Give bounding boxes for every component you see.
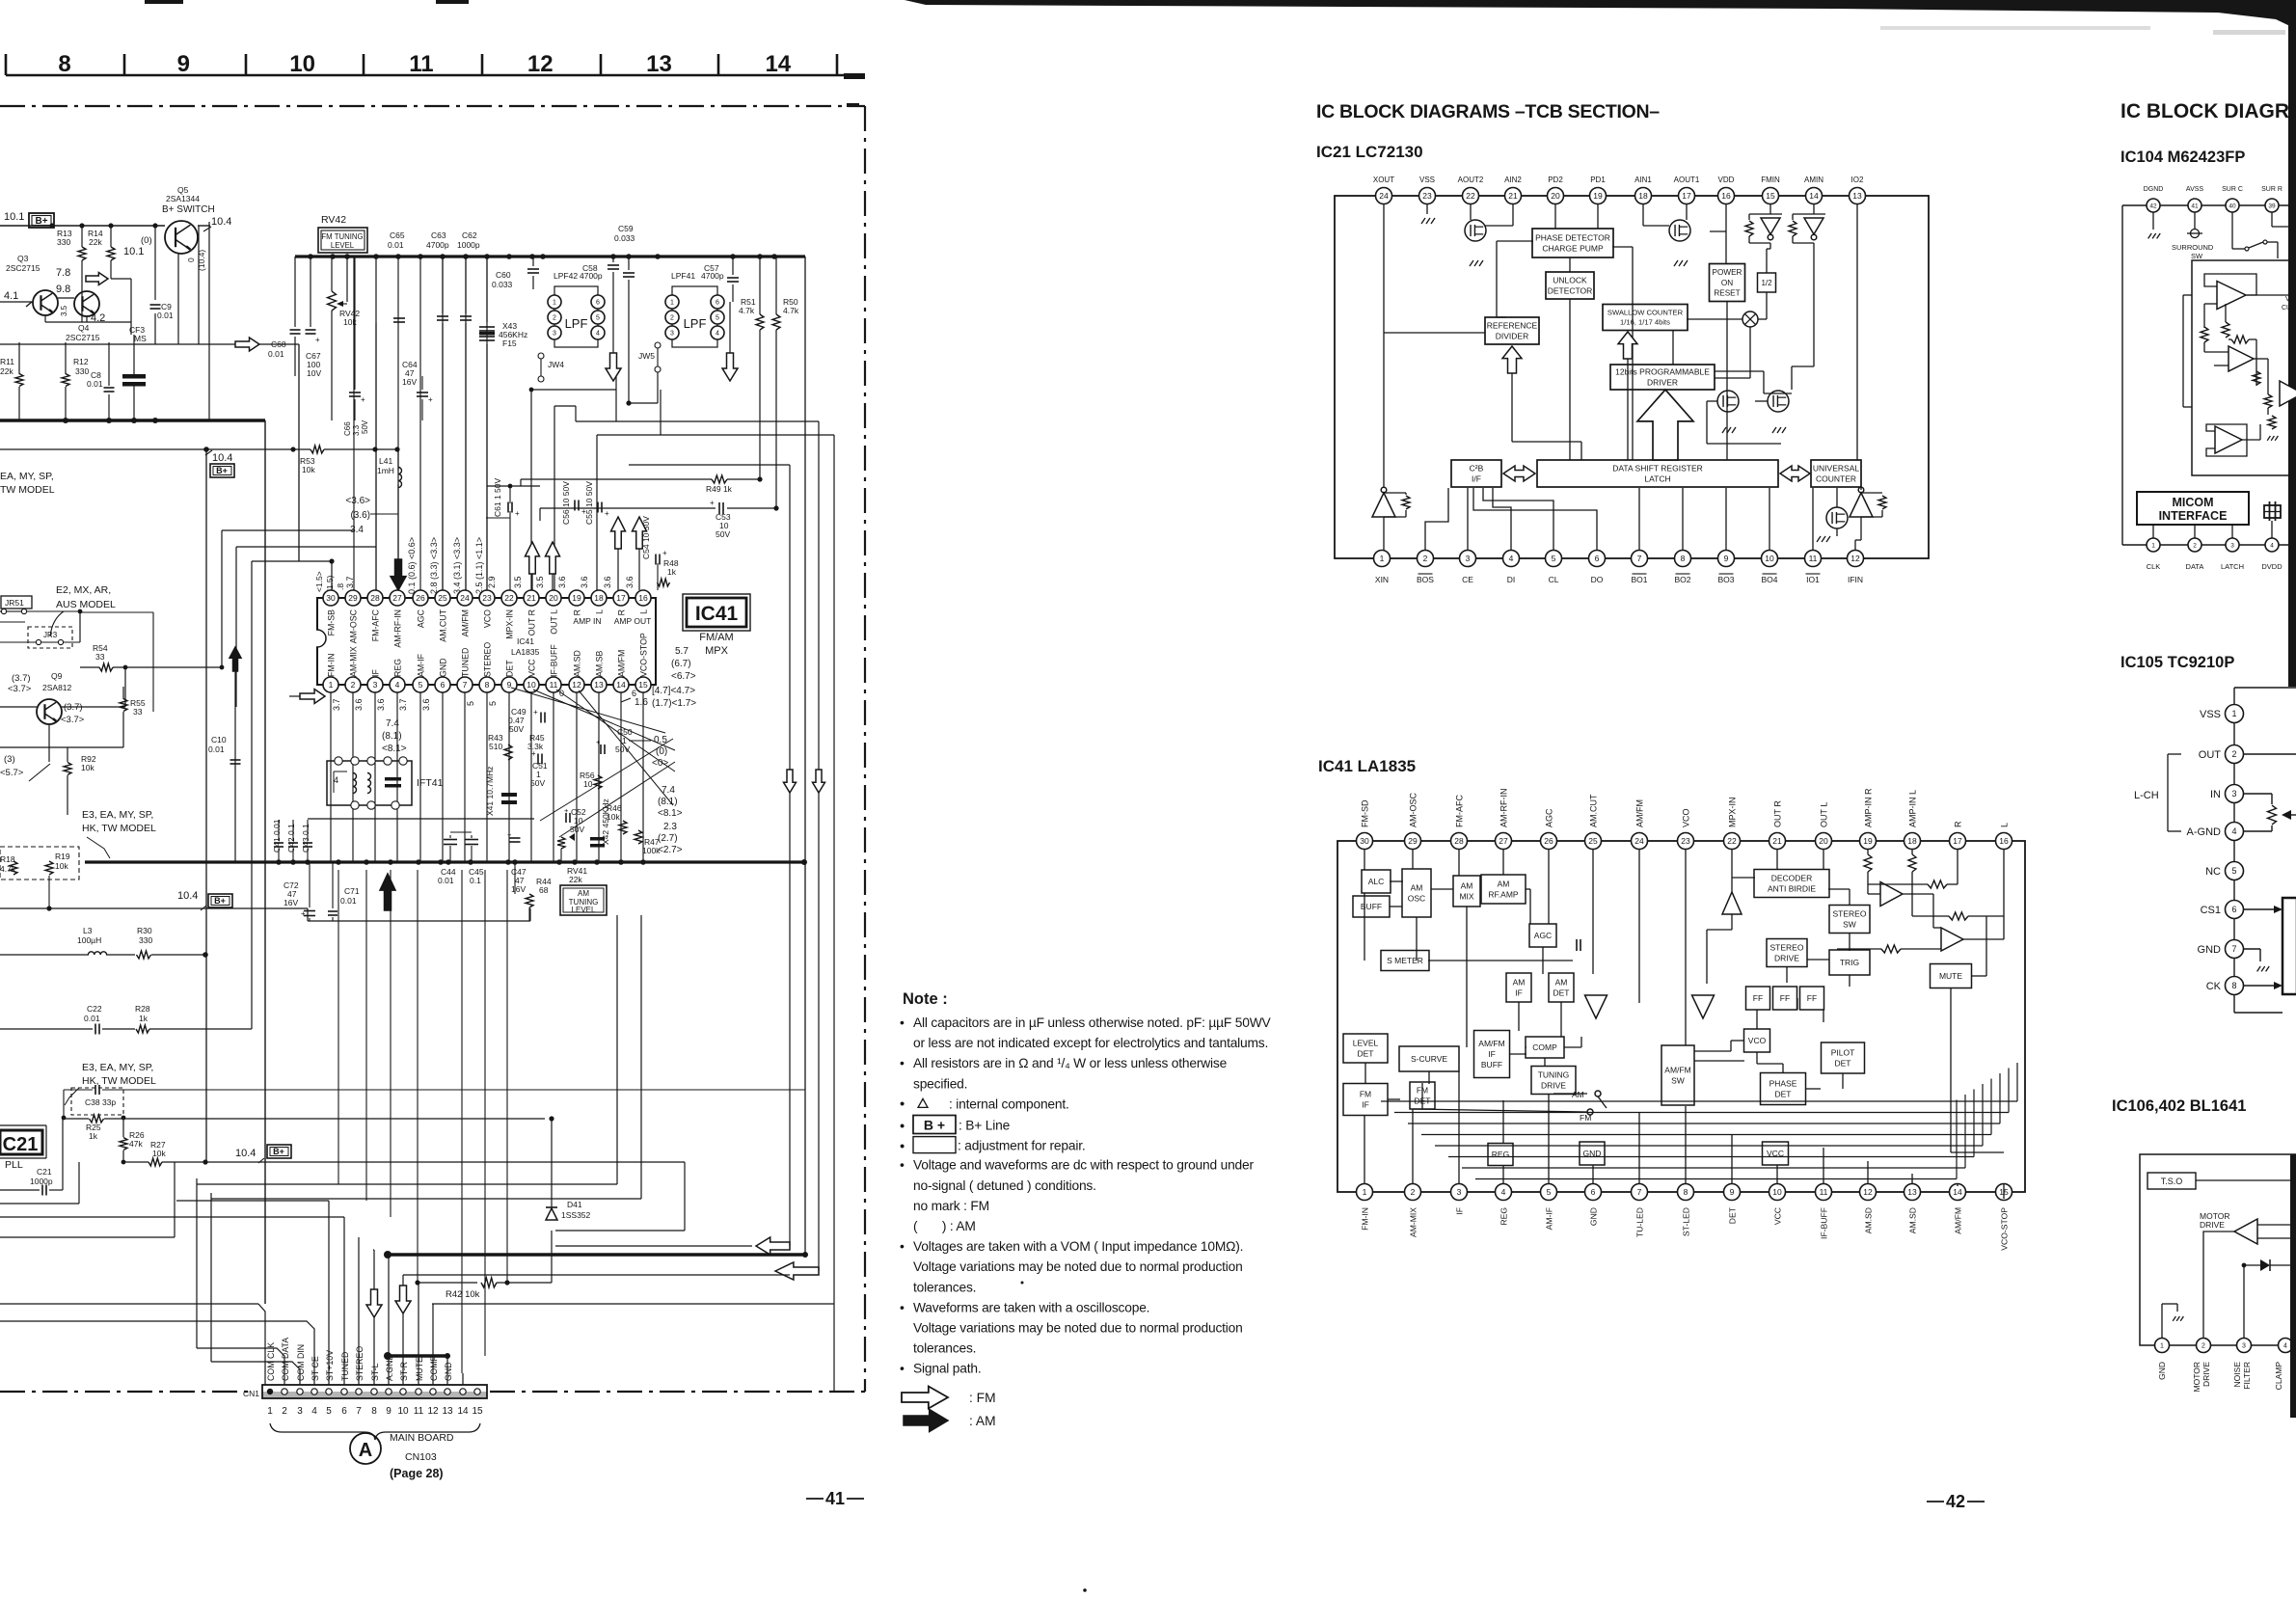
svg-text:1: 1 <box>267 1406 273 1417</box>
svg-text:23: 23 <box>1422 191 1432 201</box>
svg-text:(0): (0) <box>141 235 152 246</box>
svg-text:L3: L3 <box>83 926 93 935</box>
svg-text:5: 5 <box>1547 1187 1552 1197</box>
svg-text:OUT L: OUT L <box>550 609 559 635</box>
svg-text:JW5: JW5 <box>638 351 655 361</box>
svg-text:19: 19 <box>572 593 581 603</box>
svg-text:5: 5 <box>419 680 423 690</box>
svg-text:OUT L: OUT L <box>1820 802 1829 827</box>
svg-text:XOUT: XOUT <box>1373 176 1394 184</box>
svg-text:2.8 (3.3) <3.3>: 2.8 (3.3) <3.3> <box>429 537 439 594</box>
svg-text:40: 40 <box>2228 203 2236 209</box>
svg-text:BO3: BO3 <box>1717 575 1734 584</box>
svg-text:50V: 50V <box>530 778 545 788</box>
svg-text:B+: B+ <box>216 466 228 475</box>
svg-text:C65: C65 <box>390 230 405 240</box>
svg-text:( ) : AM: ( ) : AM <box>913 1219 976 1233</box>
svg-text:14: 14 <box>616 680 626 690</box>
svg-text:CHARGE PUMP: CHARGE PUMP <box>1542 243 1604 253</box>
svg-text:22k: 22k <box>569 875 582 884</box>
svg-text:VCO: VCO <box>483 609 493 628</box>
svg-text:0.01: 0.01 <box>268 349 284 359</box>
svg-text:CLK: CLK <box>2147 562 2161 571</box>
svg-text:42: 42 <box>1946 1492 1965 1511</box>
svg-text:DRIVE: DRIVE <box>2200 1220 2225 1230</box>
svg-text:ANTI BIRDIE: ANTI BIRDIE <box>1768 883 1816 893</box>
svg-text:•: • <box>900 1055 905 1070</box>
svg-text:1/2: 1/2 <box>1761 279 1772 287</box>
svg-text:VSS: VSS <box>1419 176 1435 184</box>
svg-text:IC41: IC41 <box>695 603 739 625</box>
svg-text:OUT: OUT <box>2199 749 2222 761</box>
svg-text:AM: AM <box>1572 1090 1584 1099</box>
svg-text:AM: AM <box>578 889 589 898</box>
svg-text:MOTOR: MOTOR <box>2192 1362 2201 1392</box>
svg-text:B+: B+ <box>273 1147 284 1156</box>
svg-text:2: 2 <box>2193 542 2197 549</box>
svg-text:COMP: COMP <box>429 1355 439 1381</box>
svg-text:2: 2 <box>1411 1187 1416 1197</box>
svg-text:R: R <box>617 609 627 615</box>
svg-text:AM/FM: AM/FM <box>1635 799 1645 827</box>
svg-text:4.7k: 4.7k <box>739 306 755 315</box>
svg-text:4: 4 <box>334 775 338 785</box>
svg-text:ST-LED: ST-LED <box>1682 1207 1691 1236</box>
svg-text:(3): (3) <box>4 754 15 765</box>
svg-text:A.GND: A.GND <box>385 1354 394 1381</box>
svg-text:18: 18 <box>1907 836 1917 846</box>
svg-text:S-CURVE: S-CURVE <box>1411 1054 1447 1064</box>
svg-text:PILOT: PILOT <box>1831 1047 1855 1057</box>
svg-text:VDD: VDD <box>1718 176 1735 184</box>
svg-text:4: 4 <box>716 331 719 338</box>
svg-text:2SA1344: 2SA1344 <box>166 194 200 203</box>
svg-text:LPF: LPF <box>565 316 588 331</box>
svg-text:9: 9 <box>1730 1187 1735 1197</box>
svg-text:GND: GND <box>444 1362 453 1381</box>
svg-text:MPX-IN: MPX-IN <box>1728 798 1738 828</box>
svg-text:(3.7): (3.7) <box>12 673 31 684</box>
svg-text:330: 330 <box>75 366 89 376</box>
svg-text:OSC: OSC <box>1408 893 1425 903</box>
svg-text:AMP-IN R: AMP-IN R <box>1864 788 1874 827</box>
svg-text:PD2: PD2 <box>1548 176 1563 184</box>
svg-text:21: 21 <box>1772 836 1782 846</box>
svg-text:3.4: 3.4 <box>350 525 364 535</box>
svg-text:SW: SW <box>1843 919 1856 929</box>
svg-text:FF: FF <box>1780 993 1790 1003</box>
svg-text:(Page 28): (Page 28) <box>390 1467 444 1480</box>
svg-text:4700p: 4700p <box>701 271 724 281</box>
svg-text:12: 12 <box>1850 554 1860 563</box>
svg-text:SUR R: SUR R <box>2261 186 2282 193</box>
svg-text:AM.CUT: AM.CUT <box>1589 794 1599 827</box>
svg-text:(8.1): (8.1) <box>382 731 402 742</box>
svg-text:29: 29 <box>348 593 358 603</box>
svg-text:E3, EA, MY, SP,: E3, EA, MY, SP, <box>82 809 153 821</box>
svg-text:+: + <box>662 549 667 557</box>
svg-text:11: 11 <box>1809 554 1818 563</box>
svg-text:VCO: VCO <box>1748 1036 1767 1045</box>
svg-text:STEREO: STEREO <box>1770 942 1804 952</box>
svg-text:6: 6 <box>441 680 446 690</box>
svg-text:AM: AM <box>1513 977 1526 987</box>
svg-text:PLL: PLL <box>5 1159 23 1171</box>
svg-text:AM-IF: AM-IF <box>1545 1207 1554 1230</box>
svg-text:30: 30 <box>326 593 336 603</box>
svg-text:HK, TW MODEL: HK, TW MODEL <box>82 1075 156 1087</box>
svg-text:2: 2 <box>2231 749 2236 759</box>
svg-text:ON: ON <box>1721 279 1733 287</box>
svg-text:Q4: Q4 <box>78 323 90 333</box>
svg-text:AM: AM <box>1498 879 1510 888</box>
svg-text:C66: C66 <box>343 421 352 436</box>
svg-text:3.7: 3.7 <box>398 698 408 711</box>
svg-text:1: 1 <box>2160 1343 2164 1350</box>
svg-text:1: 1 <box>329 680 334 690</box>
svg-text:+: + <box>428 395 433 404</box>
svg-text:TUNING: TUNING <box>1538 1069 1570 1079</box>
svg-text:3.5: 3.5 <box>535 576 545 588</box>
svg-text:10: 10 <box>1765 554 1774 563</box>
svg-text:RV42: RV42 <box>321 214 346 226</box>
svg-text:C62: C62 <box>462 230 477 240</box>
svg-text:STEREO: STEREO <box>1833 908 1867 918</box>
svg-text:BOS: BOS <box>1417 575 1434 584</box>
svg-text:DET: DET <box>1728 1206 1738 1224</box>
svg-text:4.1: 4.1 <box>4 290 18 302</box>
svg-text:S METER: S METER <box>1387 956 1423 965</box>
svg-text:LA1835: LA1835 <box>511 647 540 657</box>
svg-text:+: + <box>515 509 520 518</box>
svg-text:CU: CU <box>2282 305 2291 311</box>
svg-text:5: 5 <box>466 701 475 706</box>
svg-text:12: 12 <box>1863 1187 1873 1197</box>
svg-text:5: 5 <box>488 701 498 706</box>
svg-text:8: 8 <box>371 1406 377 1417</box>
svg-text:C²B: C²B <box>1470 463 1484 473</box>
svg-text:21: 21 <box>1508 191 1518 201</box>
svg-text:FM-AFC: FM-AFC <box>1455 795 1465 827</box>
svg-text:V: V <box>2285 296 2290 303</box>
svg-text:MUTE: MUTE <box>415 1357 424 1381</box>
svg-text:NC: NC <box>2205 866 2221 878</box>
svg-text:DATA: DATA <box>2186 562 2204 571</box>
svg-text:<3.7>: <3.7> <box>8 684 32 694</box>
svg-text:Signal path.: Signal path. <box>913 1362 981 1376</box>
svg-text:COMP: COMP <box>1532 1042 1557 1052</box>
svg-text:6: 6 <box>341 1406 347 1417</box>
svg-text:BO4: BO4 <box>1761 575 1777 584</box>
svg-text:AM/FM: AM/FM <box>617 650 627 677</box>
svg-text:ST+10V: ST+10V <box>325 1350 335 1381</box>
svg-text:MICOM: MICOM <box>2172 496 2213 509</box>
svg-text:2.5 (1.1) <1.1>: 2.5 (1.1) <1.1> <box>474 537 484 594</box>
svg-text:Waveforms are taken with a osc: Waveforms are taken with a oscilloscope. <box>913 1300 1149 1314</box>
svg-text:•: • <box>900 1015 905 1030</box>
svg-text:TRIG: TRIG <box>1840 958 1859 967</box>
svg-text:15: 15 <box>638 680 648 690</box>
svg-text:7: 7 <box>2231 944 2236 954</box>
svg-text:DGND: DGND <box>2144 186 2164 193</box>
svg-text:Q3: Q3 <box>17 254 29 263</box>
svg-text:5: 5 <box>1552 554 1556 563</box>
svg-text:no-signal ( detuned ) conditio: no-signal ( detuned ) conditions. <box>913 1178 1096 1193</box>
svg-text:HK, TW MODEL: HK, TW MODEL <box>82 823 156 834</box>
svg-text:IF-BUFF: IF-BUFF <box>1820 1207 1829 1239</box>
svg-text:1000p: 1000p <box>457 240 480 250</box>
svg-text:10k: 10k <box>55 861 68 871</box>
svg-text:1k: 1k <box>667 567 677 577</box>
svg-text:0.01: 0.01 <box>388 240 404 250</box>
svg-text:23: 23 <box>1681 836 1690 846</box>
svg-text:10k: 10k <box>607 812 620 822</box>
svg-text:AMIN: AMIN <box>1804 176 1823 184</box>
svg-text:27: 27 <box>1499 836 1508 846</box>
svg-text:2: 2 <box>351 680 356 690</box>
svg-text:<8.1>: <8.1> <box>382 744 407 754</box>
svg-text:1: 1 <box>2151 542 2155 549</box>
svg-text:16V: 16V <box>511 884 526 894</box>
svg-text:9: 9 <box>1724 554 1729 563</box>
svg-text:4: 4 <box>2270 542 2274 549</box>
svg-text:DET: DET <box>1358 1048 1374 1058</box>
svg-text:7.4: 7.4 <box>386 718 399 729</box>
svg-text:R42 10k: R42 10k <box>446 1289 480 1300</box>
svg-text:50V: 50V <box>509 724 524 734</box>
svg-text:GND: GND <box>1589 1207 1599 1226</box>
svg-text:AIN2: AIN2 <box>1504 176 1522 184</box>
svg-text:1: 1 <box>2231 709 2236 718</box>
svg-text:FF: FF <box>1753 993 1763 1003</box>
svg-text:MUTE: MUTE <box>1939 971 1962 981</box>
svg-text:3.6: 3.6 <box>557 576 567 588</box>
svg-text:IF: IF <box>1362 1099 1369 1109</box>
svg-text:+: + <box>605 509 609 518</box>
svg-text:: B+ Line: : B+ Line <box>959 1119 1011 1133</box>
svg-text:9: 9 <box>386 1406 392 1417</box>
svg-text:IO1: IO1 <box>1806 575 1820 584</box>
svg-text:MPX: MPX <box>705 645 729 657</box>
svg-text:SURROUND: SURROUND <box>2172 243 2214 252</box>
svg-text:CL: CL <box>1549 575 1559 584</box>
svg-text:3.6: 3.6 <box>421 698 431 711</box>
svg-text:IF: IF <box>1515 988 1523 997</box>
svg-text:OUT R: OUT R <box>1773 800 1783 827</box>
svg-text:22: 22 <box>504 593 514 603</box>
svg-text:16: 16 <box>1721 191 1731 201</box>
svg-text:AOUT1: AOUT1 <box>1674 176 1700 184</box>
svg-text:VCC: VCC <box>527 659 537 677</box>
svg-text:INTERFACE: INTERFACE <box>2159 509 2228 523</box>
svg-text:COM DIN: COM DIN <box>296 1344 306 1381</box>
svg-text:Voltage variations may be note: Voltage variations may be noted due to n… <box>913 1321 1243 1336</box>
svg-text:10.4: 10.4 <box>211 216 231 228</box>
svg-text:16: 16 <box>638 593 648 603</box>
svg-text:PHASE DETECTOR: PHASE DETECTOR <box>1535 232 1610 242</box>
svg-text:MAIN BOARD: MAIN BOARD <box>390 1432 454 1444</box>
svg-text:XIN: XIN <box>1375 575 1389 584</box>
svg-text:VCO-STOP: VCO-STOP <box>2000 1207 2010 1251</box>
svg-text:13: 13 <box>646 51 672 77</box>
svg-text:IC21 LC72130: IC21 LC72130 <box>1316 143 1423 161</box>
svg-text:6: 6 <box>2231 905 2236 914</box>
svg-text:16V: 16V <box>402 377 417 387</box>
svg-text:0.01: 0.01 <box>87 379 103 389</box>
svg-text:COM CLK: COM CLK <box>266 1342 276 1381</box>
svg-text:PHASE: PHASE <box>1769 1078 1797 1088</box>
svg-text:14: 14 <box>765 51 791 77</box>
svg-text:10.4: 10.4 <box>212 452 232 464</box>
svg-text:AM/FM: AM/FM <box>1664 1065 1690 1074</box>
svg-text:10k: 10k <box>81 763 95 772</box>
svg-text:JW4: JW4 <box>548 360 564 369</box>
svg-text:12: 12 <box>527 51 554 77</box>
svg-text:9.8: 9.8 <box>56 284 70 295</box>
svg-text:3: 3 <box>1466 554 1471 563</box>
svg-text:10: 10 <box>397 1406 409 1417</box>
svg-text:TW MODEL: TW MODEL <box>0 484 55 496</box>
svg-text:R49 1k: R49 1k <box>706 484 733 494</box>
svg-text:C21: C21 <box>3 1134 39 1155</box>
svg-text:28: 28 <box>370 593 380 603</box>
svg-text:REG: REG <box>1492 1150 1509 1159</box>
svg-text:39: 39 <box>2268 203 2276 209</box>
svg-text:<1.5>: <1.5> <box>314 571 324 592</box>
svg-text:RESET: RESET <box>1714 289 1740 298</box>
svg-text:5: 5 <box>326 1406 332 1417</box>
svg-text:+: + <box>533 708 538 717</box>
svg-text:0.01: 0.01 <box>208 744 225 754</box>
svg-text:3: 3 <box>2230 542 2234 549</box>
svg-text:10.4: 10.4 <box>177 890 198 902</box>
svg-text:1k: 1k <box>89 1131 98 1141</box>
svg-text:7: 7 <box>356 1406 362 1417</box>
svg-text:41: 41 <box>825 1489 845 1508</box>
svg-text:OUT R: OUT R <box>527 609 537 636</box>
svg-text:0.1 (0.6) <0.6>: 0.1 (0.6) <0.6> <box>407 537 417 594</box>
svg-text:10k: 10k <box>152 1149 166 1158</box>
svg-text:FM-IN: FM-IN <box>327 654 337 677</box>
svg-text:27: 27 <box>392 593 402 603</box>
svg-text:10.4: 10.4 <box>235 1148 256 1159</box>
svg-text:AM-RF-IN: AM-RF-IN <box>393 609 403 648</box>
svg-text:4700p: 4700p <box>580 271 603 281</box>
svg-text:10: 10 <box>527 680 536 690</box>
svg-text:12: 12 <box>572 680 581 690</box>
svg-text:3.6: 3.6 <box>603 576 612 588</box>
svg-text:AM/FM: AM/FM <box>461 609 471 636</box>
svg-text:5: 5 <box>2231 866 2236 876</box>
svg-text:Voltage variations may be note: Voltage variations may be noted due to n… <box>913 1259 1243 1274</box>
svg-text:R19: R19 <box>55 852 70 861</box>
svg-text:<3.7>: <3.7> <box>61 715 85 725</box>
svg-text:10.1: 10.1 <box>4 211 24 223</box>
svg-text:Q9: Q9 <box>51 671 63 681</box>
svg-text:LPF: LPF <box>684 316 707 331</box>
svg-text:SWALLOW COUNTER: SWALLOW COUNTER <box>1607 309 1684 317</box>
svg-text:BO1: BO1 <box>1631 575 1647 584</box>
svg-text:2SC2715: 2SC2715 <box>6 263 41 273</box>
svg-text:3.5: 3.5 <box>60 305 68 316</box>
svg-text:14: 14 <box>1953 1187 1962 1197</box>
svg-text:0.01: 0.01 <box>157 311 174 320</box>
svg-text:IF-BUFF: IF-BUFF <box>550 644 559 677</box>
svg-text:<3.6>: <3.6> <box>345 496 370 506</box>
svg-text:50V: 50V <box>570 825 584 834</box>
svg-text:C42 0.1: C42 0.1 <box>286 824 296 853</box>
svg-text:16: 16 <box>1999 836 2009 846</box>
svg-text:LPF41: LPF41 <box>671 271 695 281</box>
svg-text:FM: FM <box>1580 1113 1591 1123</box>
svg-text:X41 10.7MHz: X41 10.7MHz <box>485 767 495 817</box>
svg-text:or less are not indicated exce: or less are not indicated except for ele… <box>913 1036 1268 1050</box>
svg-text:3.6: 3.6 <box>376 698 386 711</box>
svg-text:330: 330 <box>139 935 152 945</box>
svg-text:+: + <box>507 830 512 839</box>
svg-text:20: 20 <box>1551 191 1560 201</box>
svg-text:14: 14 <box>1809 191 1819 201</box>
svg-text:AVSS: AVSS <box>2186 186 2203 193</box>
svg-text:100µH: 100µH <box>77 935 101 945</box>
svg-text:<6.7>: <6.7> <box>671 671 696 682</box>
svg-text:510: 510 <box>489 742 502 751</box>
svg-text:C63: C63 <box>431 230 446 240</box>
svg-text:C10: C10 <box>211 735 227 744</box>
svg-text:AM-RF-IN: AM-RF-IN <box>1499 789 1509 828</box>
svg-text:[4.7]<4.7>: [4.7]<4.7> <box>652 686 695 696</box>
svg-text:REG: REG <box>1499 1207 1509 1226</box>
svg-text:+: + <box>301 909 306 918</box>
svg-text:3: 3 <box>373 680 378 690</box>
svg-text:18: 18 <box>1638 191 1648 201</box>
svg-text:REG: REG <box>393 659 403 677</box>
svg-text:22: 22 <box>1466 191 1475 201</box>
svg-text:11: 11 <box>409 51 433 77</box>
svg-text:12: 12 <box>427 1406 439 1417</box>
svg-text:15: 15 <box>1766 191 1775 201</box>
svg-text:2SA812: 2SA812 <box>42 683 72 692</box>
svg-text:R28: R28 <box>135 1004 150 1014</box>
svg-text:SW: SW <box>1671 1075 1685 1085</box>
svg-text:0.01: 0.01 <box>438 876 454 885</box>
svg-text:ALC: ALC <box>1368 877 1385 886</box>
svg-text:FMIN: FMIN <box>1761 176 1780 184</box>
svg-text:FM TUNING: FM TUNING <box>321 232 363 241</box>
svg-text:0.01: 0.01 <box>340 896 357 906</box>
svg-text:0.01: 0.01 <box>84 1014 100 1023</box>
svg-text:7: 7 <box>463 680 468 690</box>
svg-text:FM/AM: FM/AM <box>699 632 733 643</box>
svg-text:330: 330 <box>57 237 70 247</box>
svg-text:3.6: 3.6 <box>354 698 364 711</box>
svg-text:68: 68 <box>539 885 549 895</box>
svg-text:R12: R12 <box>73 357 89 366</box>
svg-text:: internal component.: : internal component. <box>949 1096 1069 1111</box>
svg-text:L-CH: L-CH <box>2134 790 2159 801</box>
svg-text:CN103: CN103 <box>405 1451 437 1463</box>
svg-text:33: 33 <box>95 652 105 662</box>
svg-text:B +: B + <box>924 1118 945 1133</box>
svg-text:6: 6 <box>716 300 719 307</box>
svg-text:GND: GND <box>2157 1362 2167 1380</box>
svg-text:0.1: 0.1 <box>470 876 481 885</box>
svg-text:R: R <box>573 609 582 615</box>
svg-text:IF: IF <box>371 669 381 677</box>
svg-text:F15: F15 <box>502 338 517 348</box>
svg-text:50V: 50V <box>716 529 730 539</box>
svg-text:21: 21 <box>527 593 536 603</box>
